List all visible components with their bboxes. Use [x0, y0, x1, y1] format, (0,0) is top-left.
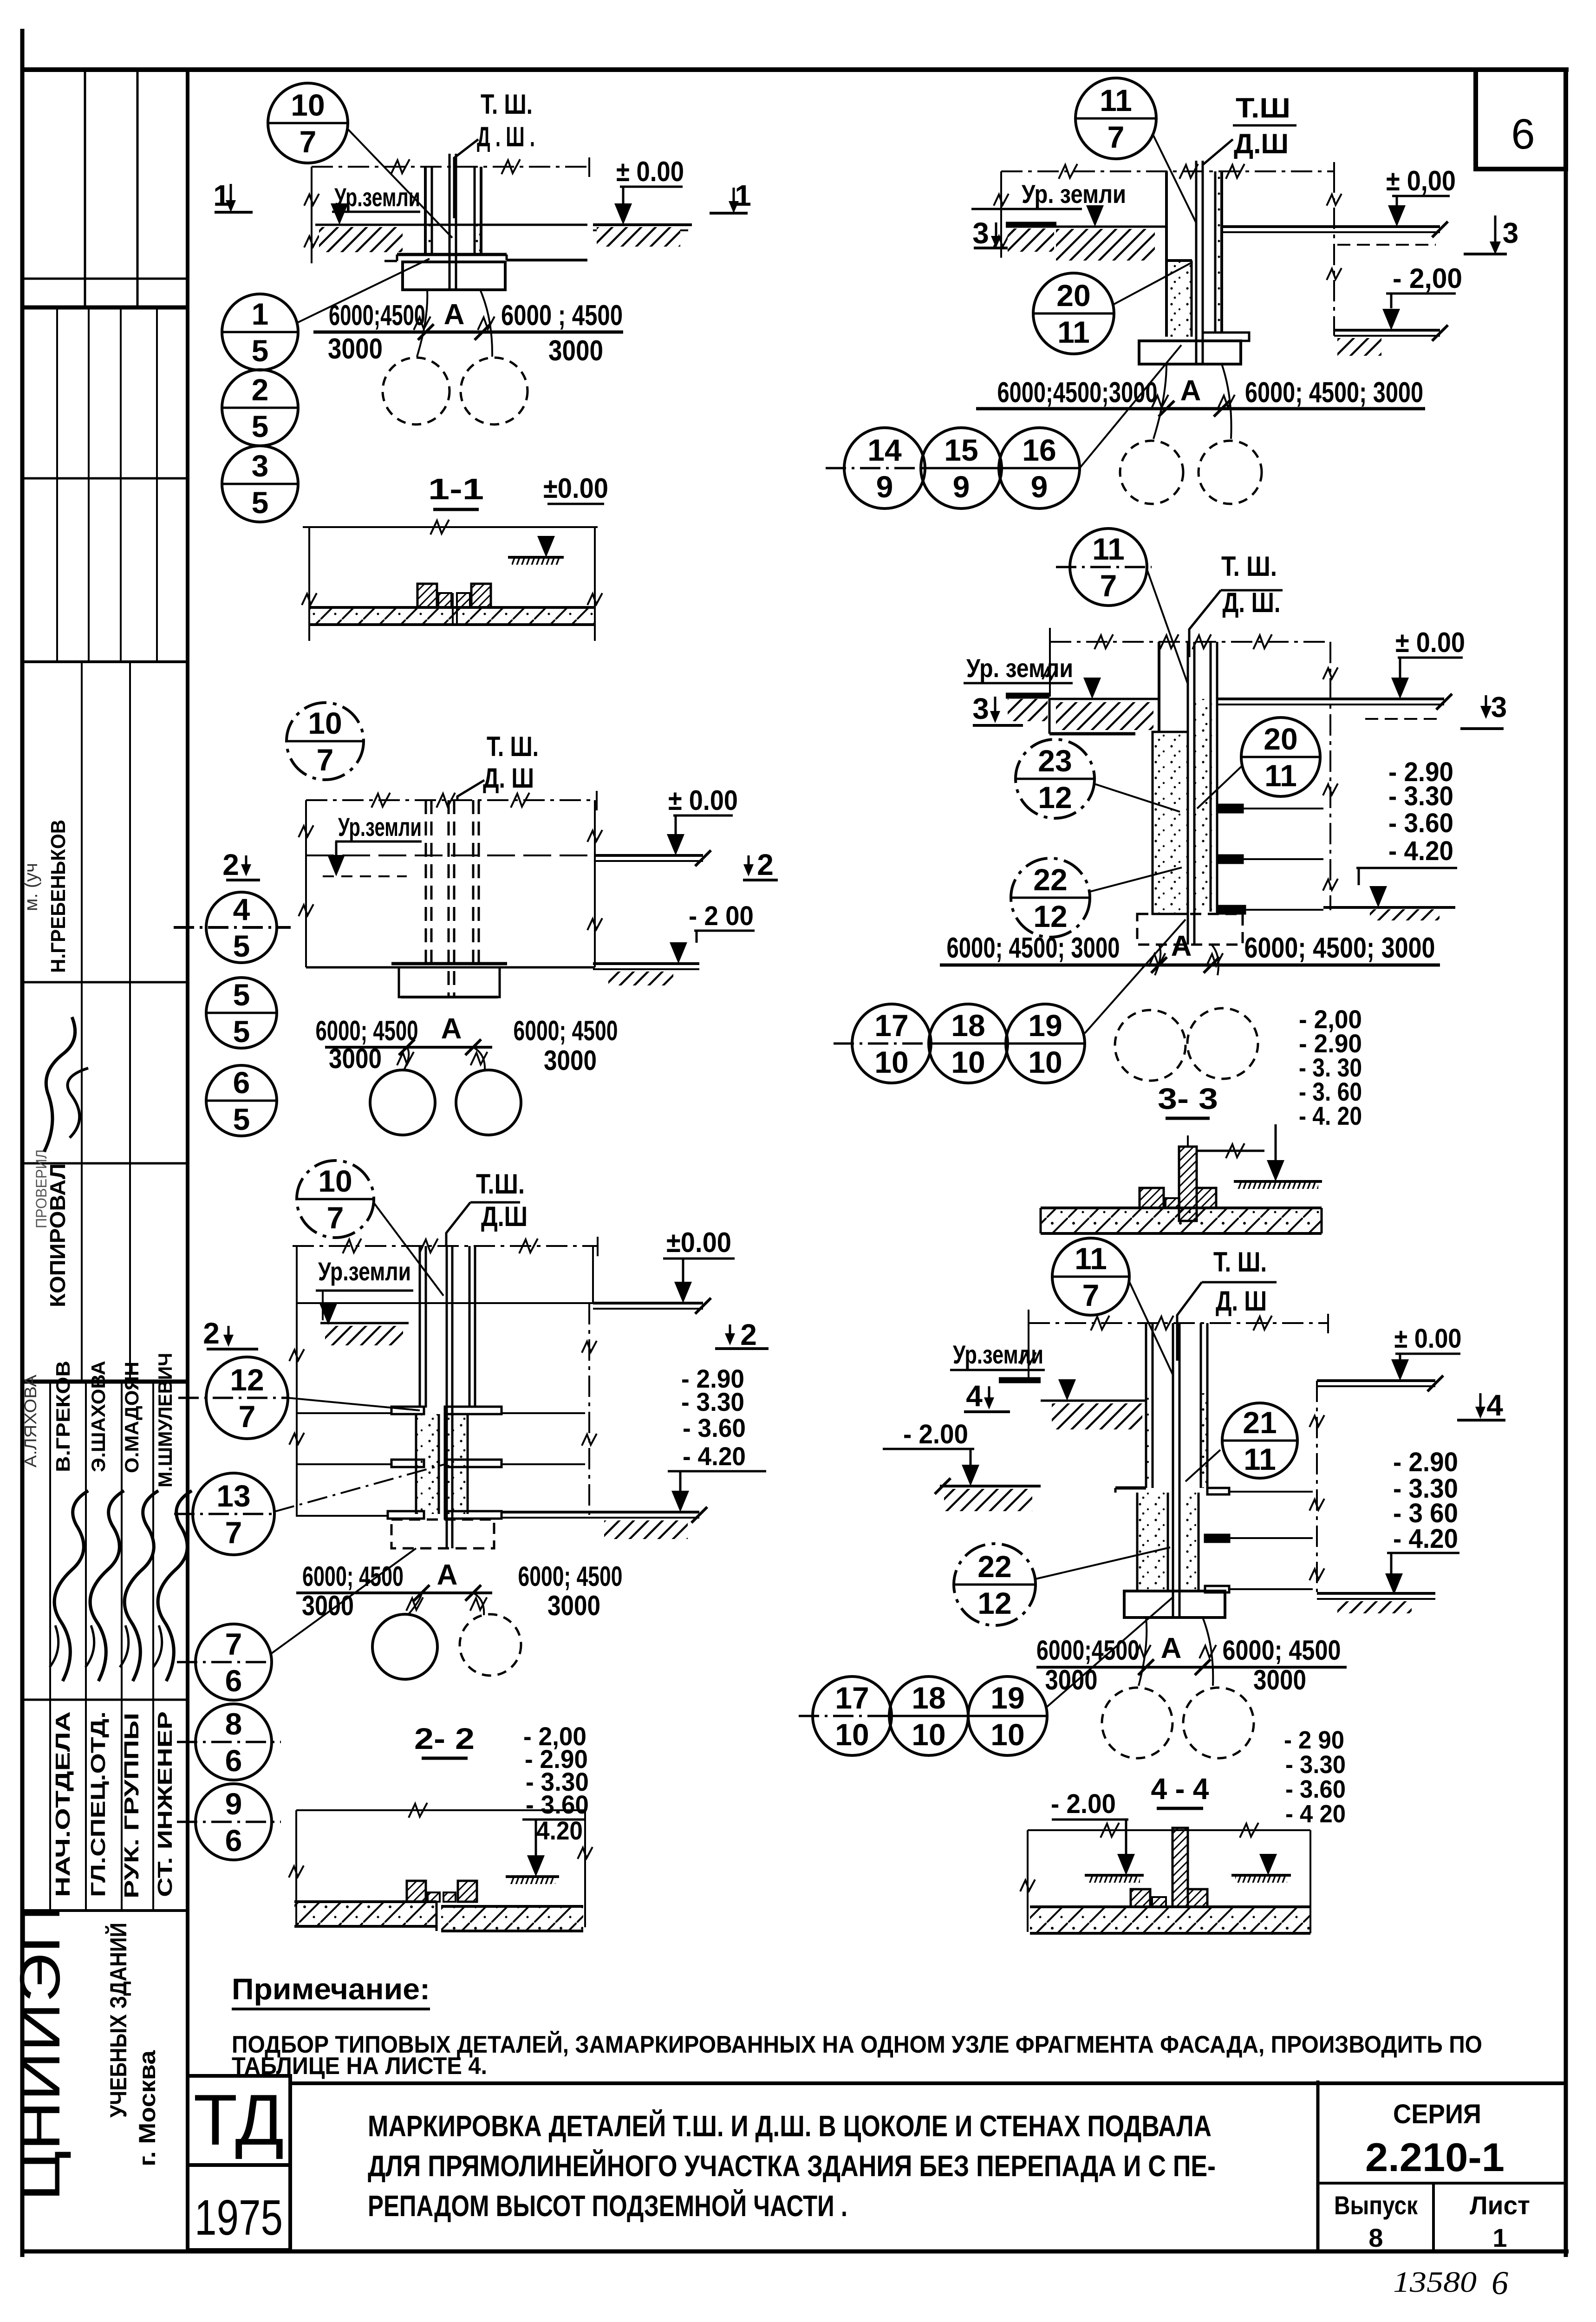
svg-text:А: А [1180, 375, 1201, 407]
svg-text:- 4.20: - 4.20 [1388, 836, 1453, 866]
svg-text:А: А [441, 1013, 462, 1045]
svg-text:18: 18 [951, 1008, 985, 1043]
svg-text:Т.Ш.: Т.Ш. [476, 1168, 525, 1200]
svg-text:23: 23 [1038, 744, 1072, 778]
svg-text:2: 2 [203, 1317, 220, 1350]
svg-text:Д . Ш .: Д . Ш . [477, 121, 535, 152]
svg-text:Т. Ш.: Т. Ш. [1213, 1246, 1267, 1278]
svg-text:6000; 4500: 6000; 4500 [518, 1561, 623, 1592]
svg-text:9: 9 [876, 470, 893, 504]
svg-text:- 3.30: - 3.30 [1285, 1751, 1346, 1779]
svg-text:1-1: 1-1 [428, 472, 484, 506]
svg-text:11: 11 [1244, 1442, 1276, 1476]
svg-text:5: 5 [233, 1014, 250, 1049]
svg-text:6: 6 [1492, 2264, 1508, 2302]
svg-text:Н.ГРЕБЕНЬКОВ: Н.ГРЕБЕНЬКОВ [47, 820, 70, 973]
svg-text:- 2 00: - 2 00 [689, 901, 754, 931]
svg-text:± 0.00: ± 0.00 [668, 785, 738, 816]
svg-text:Д. Ш.: Д. Ш. [1223, 587, 1281, 618]
svg-text:РУК. ГРУППЫ: РУК. ГРУППЫ [120, 1713, 143, 1898]
svg-text:10: 10 [912, 1717, 945, 1752]
svg-text:2- 2: 2- 2 [414, 1722, 475, 1755]
svg-text:9: 9 [1031, 470, 1048, 504]
svg-text:2: 2 [222, 848, 239, 881]
svg-text:1: 1 [1492, 2223, 1507, 2252]
svg-text:22: 22 [1033, 862, 1067, 897]
svg-text:Т.Ш: Т.Ш [1236, 92, 1290, 124]
svg-text:10: 10 [835, 1717, 869, 1752]
svg-text:Ур.земли: Ур.земли [318, 1257, 411, 1286]
svg-text:1975: 1975 [195, 2189, 283, 2245]
svg-text:6: 6 [225, 1823, 242, 1858]
svg-text:Ур.земли: Ур.земли [953, 1340, 1043, 1369]
svg-text:7: 7 [225, 1515, 242, 1550]
svg-text:М.ШМУЛЕВИЧ: М.ШМУЛЕВИЧ [154, 1353, 176, 1487]
svg-text:г. Москва: г. Москва [134, 2050, 160, 2166]
svg-text:- 2.90: - 2.90 [1393, 1447, 1458, 1477]
svg-text:6000; 4500; 3000: 6000; 4500; 3000 [947, 932, 1120, 964]
svg-text:3: 3 [972, 216, 989, 250]
svg-text:- 3.30: - 3.30 [681, 1387, 744, 1416]
svg-text:2.210-1: 2.210-1 [1365, 2135, 1505, 2180]
svg-text:Ур.земли: Ур.земли [338, 812, 422, 841]
svg-text:3000: 3000 [328, 333, 383, 365]
svg-text:Д.Ш: Д.Ш [481, 1201, 528, 1232]
svg-text:МАРКИРОВКА ДЕТАЛЕЙ Т.Ш. И Д.Ш.: МАРКИРОВКА ДЕТАЛЕЙ Т.Ш. И Д.Ш. В ЦОКОЛЕ … [368, 2109, 1212, 2143]
svg-text:7: 7 [1107, 120, 1125, 154]
svg-text:12: 12 [1038, 780, 1072, 815]
svg-text:- 4. 20: - 4. 20 [1299, 1101, 1362, 1130]
svg-text:5: 5 [252, 485, 269, 520]
svg-text:7: 7 [317, 743, 334, 777]
svg-text:17: 17 [874, 1008, 908, 1043]
svg-text:Ур. земли: Ур. земли [1022, 179, 1126, 209]
svg-text:12: 12 [1033, 899, 1067, 933]
svg-text:3: 3 [972, 692, 989, 725]
svg-text:13580: 13580 [1393, 2265, 1477, 2298]
svg-text:2: 2 [740, 1318, 757, 1351]
svg-text:19: 19 [1028, 1008, 1062, 1043]
svg-text:Примечание:: Примечание: [232, 1972, 430, 2006]
svg-text:6000; 4500: 6000; 4500 [302, 1561, 404, 1592]
svg-text:ЦНИИЭП: ЦНИИЭП [8, 1904, 72, 2201]
svg-text:Т. Ш.: Т. Ш. [487, 731, 539, 762]
svg-text:- 4 20: - 4 20 [1285, 1800, 1346, 1828]
svg-text:10: 10 [1028, 1045, 1062, 1079]
svg-text:5: 5 [233, 1102, 250, 1136]
svg-text:4: 4 [966, 1379, 983, 1413]
svg-text:10: 10 [318, 1164, 352, 1198]
svg-text:РЕПАДОМ ВЫСОТ ПОДЗЕМНОЙ ЧАСТИ: РЕПАДОМ ВЫСОТ ПОДЗЕМНОЙ ЧАСТИ . [368, 2189, 847, 2223]
svg-text:ТАБЛИЦЕ НА ЛИСТЕ 4.: ТАБЛИЦЕ НА ЛИСТЕ 4. [232, 2053, 487, 2080]
svg-text:10: 10 [874, 1045, 908, 1079]
svg-text:10: 10 [291, 88, 325, 122]
svg-text:12: 12 [230, 1363, 264, 1397]
svg-text:Э.ШАХОВА: Э.ШАХОВА [87, 1361, 109, 1472]
svg-text:± 0.00: ± 0.00 [616, 156, 684, 187]
svg-text:3: 3 [252, 449, 269, 483]
svg-text:- 2,00: - 2,00 [1393, 263, 1462, 294]
svg-text:6000; 4500: 6000; 4500 [1223, 1635, 1341, 1666]
svg-text:А: А [1161, 1632, 1182, 1664]
svg-text:В.ГРЕКОВ: В.ГРЕКОВ [52, 1361, 74, 1472]
svg-text:8: 8 [1368, 2223, 1383, 2252]
svg-text:А: А [437, 1559, 458, 1591]
svg-text:ПРОВЕРИЛ: ПРОВЕРИЛ [33, 1149, 50, 1228]
svg-text:СЕРИЯ: СЕРИЯ [1393, 2099, 1481, 2129]
svg-text:±0.00: ±0.00 [543, 473, 608, 504]
svg-text:3: 3 [1503, 217, 1518, 249]
svg-text:± 0,00: ± 0,00 [1386, 165, 1456, 196]
svg-text:6000; 4500; 3000: 6000; 4500; 3000 [1245, 377, 1423, 409]
svg-text:4: 4 [233, 892, 250, 926]
svg-text:17: 17 [835, 1681, 869, 1715]
svg-text:20: 20 [1264, 722, 1297, 756]
svg-text:8: 8 [225, 1707, 242, 1741]
svg-text:1: 1 [252, 297, 269, 331]
svg-text:3000: 3000 [548, 335, 603, 367]
svg-text:19: 19 [990, 1681, 1024, 1715]
svg-text:- 4.20: - 4.20 [1393, 1524, 1458, 1554]
svg-text:А: А [444, 299, 465, 331]
svg-text:Т. Ш.: Т. Ш. [1221, 551, 1277, 582]
svg-text:± 0.00: ± 0.00 [1395, 627, 1465, 658]
svg-text:11: 11 [1075, 1241, 1107, 1276]
svg-text:7: 7 [239, 1399, 256, 1434]
svg-text:9: 9 [953, 470, 970, 504]
svg-text:м. (уч: м. (уч [21, 863, 41, 911]
svg-text:10: 10 [951, 1045, 985, 1079]
svg-text:ТД: ТД [194, 2080, 284, 2160]
svg-text:ДЛЯ ПРЯМОЛИНЕЙНОГО УЧАСТКА ЗДА: ДЛЯ ПРЯМОЛИНЕЙНОГО УЧАСТКА ЗДАНИЯ БЕЗ ПЕ… [368, 2149, 1216, 2183]
svg-text:5: 5 [233, 929, 250, 963]
svg-text:- 3.30: - 3.30 [1388, 781, 1453, 811]
svg-text:3000: 3000 [329, 1043, 382, 1074]
svg-text:7: 7 [327, 1200, 344, 1235]
svg-text:10: 10 [308, 706, 342, 740]
svg-text:1: 1 [213, 179, 230, 212]
svg-text:О.МАДОЯН: О.МАДОЯН [121, 1362, 143, 1473]
svg-text:9: 9 [225, 1787, 242, 1821]
svg-text:- 3.60: - 3.60 [1388, 808, 1453, 838]
svg-text:- 3.60: - 3.60 [526, 1790, 589, 1819]
svg-text:3000: 3000 [547, 1590, 600, 1621]
svg-text:А: А [1171, 930, 1192, 962]
svg-text:УЧЕБНЫХ ЗДАНИЙ: УЧЕБНЫХ ЗДАНИЙ [105, 1923, 131, 2118]
svg-text:± 0.00: ± 0.00 [1394, 1324, 1462, 1354]
svg-text:22: 22 [977, 1549, 1011, 1584]
svg-text:6: 6 [1511, 111, 1535, 158]
svg-text:15: 15 [944, 433, 978, 467]
svg-text:- 2.00: - 2.00 [1051, 1789, 1116, 1819]
svg-text:А.ЛЯХОВА: А.ЛЯХОВА [21, 1375, 40, 1468]
svg-text:5: 5 [252, 333, 269, 368]
svg-text:Д. Ш: Д. Ш [1216, 1285, 1267, 1317]
svg-text:- 3.60: - 3.60 [1285, 1775, 1346, 1803]
svg-text:1: 1 [735, 179, 751, 212]
svg-text:12: 12 [977, 1586, 1011, 1620]
svg-text:6: 6 [225, 1743, 242, 1778]
svg-text:21: 21 [1243, 1405, 1277, 1440]
svg-text:Д. Ш: Д. Ш [483, 763, 534, 794]
svg-text:11: 11 [1092, 532, 1125, 566]
svg-text:- 2 90: - 2 90 [1284, 1726, 1344, 1754]
svg-text:Т. Ш.: Т. Ш. [481, 89, 533, 120]
svg-text:6000;4500: 6000;4500 [329, 300, 425, 332]
svg-text:7: 7 [1082, 1278, 1100, 1312]
svg-text:11: 11 [1057, 315, 1090, 349]
svg-text:- 3.60: - 3.60 [683, 1413, 746, 1442]
svg-text:16: 16 [1022, 433, 1056, 467]
svg-text:14: 14 [867, 433, 902, 467]
svg-text:6: 6 [233, 1065, 250, 1100]
svg-text:3: 3 [1491, 691, 1507, 724]
svg-text:3000: 3000 [1253, 1664, 1306, 1696]
svg-text:10: 10 [990, 1717, 1024, 1752]
svg-text:20: 20 [1056, 278, 1090, 313]
svg-text:6000; 4500: 6000; 4500 [316, 1015, 418, 1046]
svg-text:6: 6 [225, 1663, 242, 1698]
svg-text:5: 5 [233, 978, 250, 1012]
svg-text:5: 5 [252, 409, 269, 444]
svg-text:±0.00: ±0.00 [666, 1227, 731, 1258]
svg-text:СТ. ИНЖЕНЕР: СТ. ИНЖЕНЕР [154, 1711, 176, 1897]
svg-text:6000; 4500: 6000; 4500 [514, 1015, 618, 1046]
svg-text:6000 ; 4500: 6000 ; 4500 [501, 300, 623, 332]
svg-text:3000: 3000 [302, 1590, 354, 1621]
svg-text:2: 2 [252, 372, 269, 407]
svg-text:2: 2 [757, 848, 774, 881]
svg-text:7: 7 [1100, 568, 1117, 603]
svg-text:6000; 4500; 3000: 6000; 4500; 3000 [1244, 932, 1435, 964]
svg-text:4 - 4: 4 - 4 [1151, 1772, 1209, 1806]
svg-text:7: 7 [225, 1627, 242, 1661]
svg-text:4: 4 [1486, 1389, 1503, 1422]
svg-text:3- 3: 3- 3 [1158, 1082, 1218, 1115]
svg-text:11: 11 [1100, 83, 1132, 117]
svg-text:- 2.00: - 2.00 [903, 1419, 968, 1449]
svg-text:Лист: Лист [1470, 2191, 1530, 2220]
svg-text:11: 11 [1264, 758, 1297, 793]
svg-text:Ур. земли: Ур. земли [966, 653, 1073, 683]
svg-text:18: 18 [912, 1681, 945, 1715]
svg-text:Д.Ш: Д.Ш [1234, 128, 1289, 159]
svg-text:Выпуск: Выпуск [1334, 2191, 1418, 2220]
svg-text:- 4.20: - 4.20 [683, 1441, 746, 1471]
svg-text:7: 7 [300, 124, 317, 159]
svg-text:ГЛ.СПЕЦ.ОТД.: ГЛ.СПЕЦ.ОТД. [87, 1711, 110, 1897]
svg-text:4.20: 4.20 [536, 1816, 583, 1845]
svg-text:НАЧ.ОТДЕЛА: НАЧ.ОТДЕЛА [52, 1711, 74, 1897]
svg-text:Ур.земли: Ур.земли [334, 183, 420, 212]
svg-text:13: 13 [216, 1479, 250, 1513]
svg-text:3000: 3000 [544, 1045, 597, 1076]
